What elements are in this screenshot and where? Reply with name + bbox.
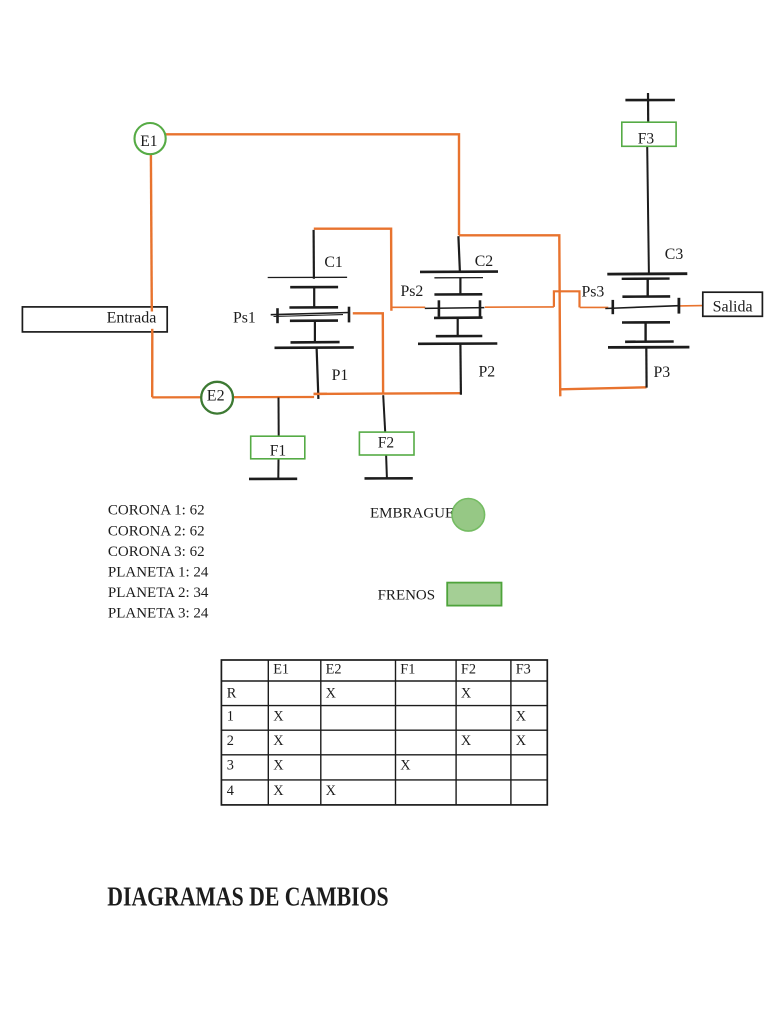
gear2 upper vertical <box>459 278 461 295</box>
svg-text:PLANETA 2: 34: PLANETA 2: 34 <box>108 585 209 601</box>
brake F3 ground stub <box>647 93 649 122</box>
brake F1 stub bottom <box>277 459 279 479</box>
table text <box>227 661 531 799</box>
svg-text:P2: P2 <box>479 363 496 380</box>
gear data text block <box>108 503 209 622</box>
wire hop over vertical (jump) <box>554 291 580 307</box>
svg-text:X: X <box>273 708 284 724</box>
svg-text:2: 2 <box>227 733 234 749</box>
gear1 mid mesh bar <box>289 306 338 309</box>
wire E2 rail right segment to P2 sun <box>314 392 462 395</box>
wire Ps1 carrier elbow down to F2 junction <box>353 313 383 393</box>
brake F1 stub top <box>278 398 280 437</box>
svg-text:F1: F1 <box>270 442 286 459</box>
wire rail over P1 shaft crossing <box>314 393 328 396</box>
planetary gear 2 shaft C2 <box>458 236 460 272</box>
gear1 ring bar (thin long) <box>268 276 347 278</box>
brake F1 ground bar <box>249 477 297 480</box>
wire hop to Ps3 carrier <box>580 306 609 308</box>
svg-text:Entrada: Entrada <box>107 309 157 326</box>
svg-text:X: X <box>273 783 284 799</box>
gear1 bottom mesh bar <box>291 341 340 344</box>
gear2 mid mesh bar <box>434 293 482 296</box>
brake F2 box <box>359 432 414 455</box>
gear1 lower mesh bar <box>290 319 338 322</box>
gear1 upper vertical <box>313 287 315 307</box>
svg-text:X: X <box>326 783 337 799</box>
svg-text:Ps3: Ps3 <box>582 284 605 301</box>
svg-text:CORONA 3: 62: CORONA 3: 62 <box>108 544 205 560</box>
wire nub out of Entrada box bottom <box>151 329 154 334</box>
svg-text:Ps2: Ps2 <box>401 283 424 300</box>
svg-text:F3: F3 <box>516 661 531 677</box>
svg-text:3: 3 <box>227 757 234 773</box>
gear2 carrier line Ps2 <box>425 307 485 310</box>
gear1 carrier tick left <box>276 308 279 323</box>
wire C2 ring junction to P3 sun (right, down, right) <box>459 235 560 396</box>
svg-text:X: X <box>326 686 337 702</box>
gear1 carrier line second stroke <box>274 315 344 317</box>
gear3 sun shaft P3 <box>645 347 647 387</box>
planetary gear 3 shaft C3 from F3 <box>647 146 649 274</box>
wire bottom run to P3 <box>560 387 646 389</box>
svg-text:E2: E2 <box>207 387 225 404</box>
gear2 thin bar <box>434 277 483 279</box>
svg-text:X: X <box>516 733 527 749</box>
wire E1 down to Entrada box <box>150 154 153 311</box>
gear1 sun bar (long) <box>275 346 354 349</box>
brake F3 box <box>622 122 676 146</box>
svg-text:1: 1 <box>227 708 234 724</box>
svg-text:PLANETA 3: 24: PLANETA 3: 24 <box>108 606 209 622</box>
gear1 carrier tick right <box>348 307 351 323</box>
gear2 carrier tick left <box>438 300 441 316</box>
wire C1 elbow horizontal thin into Ps2 carrier <box>391 306 425 308</box>
gear2 carrier tick right <box>479 300 482 316</box>
gear3 bottom mesh bar <box>625 340 674 343</box>
svg-text:X: X <box>273 757 284 773</box>
svg-text:F1: F1 <box>400 661 415 677</box>
gear2 bottom mesh bar <box>436 335 483 338</box>
svg-text:X: X <box>461 733 472 749</box>
svg-text:C1: C1 <box>324 254 342 271</box>
legend brake sample rectangle <box>447 583 501 606</box>
gear1 lower vertical <box>314 321 316 343</box>
wire nub into Entrada box top <box>151 306 153 312</box>
gear3 lower vertical <box>644 322 646 341</box>
gear3 carrier tick left <box>611 300 614 314</box>
svg-text:FRENOS: FRENOS <box>378 588 436 604</box>
brake F2 ground bar <box>365 477 413 480</box>
svg-text:E2: E2 <box>326 661 342 677</box>
svg-text:X: X <box>461 686 472 702</box>
brake F3 ground bar <box>625 99 675 102</box>
svg-text:X: X <box>400 757 411 773</box>
svg-text:CORONA 2: 62: CORONA 2: 62 <box>108 523 205 539</box>
wire E2 rail left segment <box>152 396 314 399</box>
svg-text:F2: F2 <box>378 435 394 452</box>
svg-text:DIAGRAMAS DE CAMBIOS: DIAGRAMAS DE CAMBIOS <box>107 881 388 911</box>
planetary gear 1 shaft C1 <box>313 230 315 279</box>
brake F2 stub bottom <box>386 449 387 478</box>
svg-text:P3: P3 <box>654 364 671 381</box>
svg-text:4: 4 <box>227 783 234 799</box>
svg-text:E1: E1 <box>140 133 157 150</box>
node E1 clutch circle <box>135 123 166 154</box>
svg-text:F2: F2 <box>461 661 476 677</box>
gear1 sun shaft P1 <box>317 348 319 399</box>
gear1 upper mesh bar <box>290 286 338 289</box>
gear1 carrier line Ps1 <box>271 313 350 315</box>
wire E1 to C2 ring (top horizontal and right vertical) <box>166 134 460 235</box>
svg-text:E1: E1 <box>273 661 289 677</box>
brake F2 stub top <box>383 395 385 432</box>
brake F1 box <box>251 436 305 459</box>
node E2 clutch circle <box>201 382 233 414</box>
gear3 mid mesh bar <box>622 295 670 298</box>
gear3 carrier line Ps3 <box>605 306 678 309</box>
Entrada input box <box>22 307 167 332</box>
svg-text:Salida: Salida <box>713 299 753 316</box>
gear2 lower mesh bar <box>434 316 483 319</box>
svg-text:X: X <box>273 733 284 749</box>
gear3 upper mesh bar <box>622 277 670 280</box>
svg-text:Ps1: Ps1 <box>233 310 256 327</box>
wire Ps3 carrier to Salida box <box>679 305 703 307</box>
wire Ps2 carrier to hop <box>485 306 554 308</box>
gear3 sun bar (long) <box>608 346 689 349</box>
svg-text:C3: C3 <box>665 246 684 263</box>
gear3 lower mesh bar <box>622 321 670 324</box>
svg-text:PLANETA 1: 24: PLANETA 1: 24 <box>108 565 209 581</box>
gear3 upper vertical <box>647 279 649 297</box>
legend clutch sample circle <box>452 499 485 532</box>
svg-text:F3: F3 <box>638 131 655 148</box>
svg-text:P1: P1 <box>332 367 349 384</box>
gear3 ring bar (long) <box>607 272 687 275</box>
gear3 carrier tick right <box>678 298 681 314</box>
gear engagement table grid <box>221 660 547 805</box>
svg-text:EMBRAGUE: EMBRAGUE <box>370 505 454 521</box>
svg-text:X: X <box>516 708 527 724</box>
gear2 ring bar (long) <box>420 270 498 273</box>
gear2 sun bar (long) <box>418 342 497 345</box>
gear2 sun shaft P2 <box>459 344 462 395</box>
svg-text:CORONA 1: 62: CORONA 1: 62 <box>108 503 205 519</box>
Salida output box <box>703 292 763 316</box>
gear2 lower vertical <box>457 318 459 336</box>
wire C1 ring over and down to Ps2 <box>314 229 392 311</box>
svg-text:R: R <box>227 686 237 702</box>
svg-text:C2: C2 <box>475 253 494 270</box>
wire Entrada down to E2 rail corner <box>151 329 154 397</box>
